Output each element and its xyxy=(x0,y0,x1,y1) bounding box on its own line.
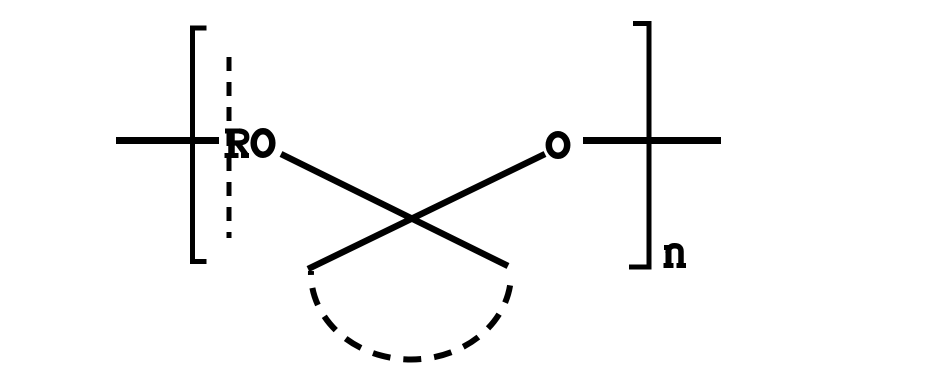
dashed bond: vertical dashed line through RO xyxy=(227,57,232,238)
dashed ring arc (spiro ring, lower) xyxy=(311,271,511,359)
label O (right oxygen) xyxy=(549,134,567,156)
label O of RO xyxy=(254,131,273,154)
wire: right chain bond out of O xyxy=(583,137,721,144)
bond: O to lower-left (crossing line B) xyxy=(308,154,545,269)
label R of RO (alkoxy group), typewriter style xyxy=(225,130,250,156)
wire: left chain bond into bracket xyxy=(116,137,219,144)
subscript n (degree of polymerization) xyxy=(664,246,687,266)
right repeat bracket ] xyxy=(629,24,649,268)
bond: RO to lower-right (crossing line A) xyxy=(281,154,508,266)
left repeat bracket [ xyxy=(193,28,207,262)
